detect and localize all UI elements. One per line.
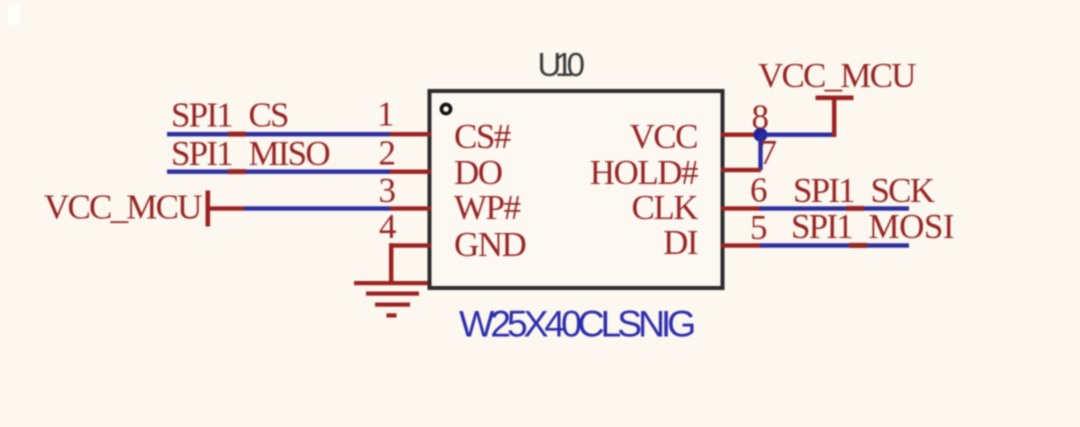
pin name VCC xyxy=(630,117,698,156)
pin number 5 xyxy=(750,208,768,247)
pin 7 stub xyxy=(721,168,761,172)
power port VCC_MCU left label xyxy=(44,188,202,227)
pin 4 wire vertical to ground xyxy=(389,243,393,284)
wire net SPI1_MOSI (blue) xyxy=(760,243,909,247)
pin number 6 xyxy=(750,171,768,210)
pin number 8 xyxy=(752,98,770,137)
wire net VCC_MCU to pin3 (blue) xyxy=(244,206,390,210)
power stub red (left) xyxy=(206,206,245,210)
net label SPI1_CS xyxy=(171,96,288,135)
svg-text:W25X40CLSNIG: W25X40CLSNIG xyxy=(459,303,694,345)
underscore overlap on SCK wire xyxy=(846,206,864,211)
svg-text:DO: DO xyxy=(454,153,502,192)
svg-text:CS: CS xyxy=(249,96,289,135)
svg-text:DI: DI xyxy=(663,223,698,262)
wire net SPI1_SCK (blue) xyxy=(760,206,909,210)
svg-text:6: 6 xyxy=(750,171,768,210)
svg-text:8: 8 xyxy=(752,98,770,137)
svg-text:1: 1 xyxy=(377,95,395,134)
refdes U10 xyxy=(538,46,585,83)
pin 8 stub xyxy=(721,133,761,137)
junction dot pin8 xyxy=(754,128,768,142)
pin 1 stub xyxy=(390,132,431,136)
svg-text:U10: U10 xyxy=(538,46,585,83)
svg-text:SPI1: SPI1 xyxy=(171,134,232,173)
svg-text:MOSI: MOSI xyxy=(869,207,955,246)
pin number 1 xyxy=(377,95,395,134)
svg-text:VCC_MCU: VCC_MCU xyxy=(44,188,202,227)
power port bar (right) xyxy=(816,96,854,101)
svg-text:CLK: CLK xyxy=(632,188,699,227)
power stub vertical (right VCC_MCU) xyxy=(832,96,836,137)
pin 5 stub xyxy=(721,243,761,247)
wire pin8 to VCC (blue) xyxy=(760,133,836,137)
pin 3 stub xyxy=(390,206,431,210)
svg-text:MISO: MISO xyxy=(249,134,330,173)
pin number 2 xyxy=(379,134,397,173)
pin 6 stub xyxy=(721,206,761,210)
svg-text:SPI1: SPI1 xyxy=(791,207,852,246)
wire net SPI1_CS (blue) xyxy=(167,132,390,136)
underscore overlap on wire 2 xyxy=(228,169,246,174)
pin name CS# xyxy=(454,117,511,156)
pin name HOLD# xyxy=(590,153,698,192)
part number W25X40CLSNIG xyxy=(459,303,694,345)
net label SPI1_MOSI xyxy=(791,207,954,246)
net label SPI1_SCK xyxy=(793,171,935,210)
power port VCC_MCU right label xyxy=(758,56,916,95)
svg-text:GND: GND xyxy=(454,225,526,264)
pin number 7 xyxy=(760,133,778,172)
svg-text:5: 5 xyxy=(750,208,768,247)
pin number 3 xyxy=(379,171,397,210)
underscore overlap on MOSI wire xyxy=(849,243,867,248)
pin 2 stub xyxy=(390,170,431,174)
wire pin8 junction down to pin7 (blue) xyxy=(758,135,762,171)
svg-text:3: 3 xyxy=(379,171,397,210)
pin number 4 xyxy=(379,207,397,246)
pin-1 indicator dot xyxy=(441,104,450,113)
svg-text:4: 4 xyxy=(379,207,397,246)
svg-text:SPI1: SPI1 xyxy=(171,96,232,135)
svg-text:WP#: WP# xyxy=(454,188,521,227)
pin 4 stub horizontal xyxy=(389,243,431,247)
svg-text:CS#: CS# xyxy=(454,117,511,156)
pin name DI xyxy=(663,223,698,262)
underscore overlap on wire 1 xyxy=(228,132,246,137)
svg-text:VCC: VCC xyxy=(630,117,698,156)
wire net SPI1_MISO (blue) xyxy=(167,170,390,174)
svg-text:HOLD#: HOLD# xyxy=(590,153,698,192)
svg-text:7: 7 xyxy=(760,133,778,172)
svg-text:VCC_MCU: VCC_MCU xyxy=(758,56,916,95)
pin name GND xyxy=(454,225,526,264)
ground symbol xyxy=(354,281,428,318)
svg-text:SCK: SCK xyxy=(871,171,935,210)
pin name DO xyxy=(454,153,502,192)
svg-text:SPI1: SPI1 xyxy=(793,171,854,210)
faint watermark box top-left xyxy=(8,5,20,25)
power port bar (left) xyxy=(206,191,211,227)
IC U10 body xyxy=(430,91,723,288)
pin name CLK xyxy=(632,188,699,227)
svg-text:2: 2 xyxy=(379,134,397,173)
pin name WP# xyxy=(454,188,521,227)
net label SPI1_MISO xyxy=(171,134,329,173)
